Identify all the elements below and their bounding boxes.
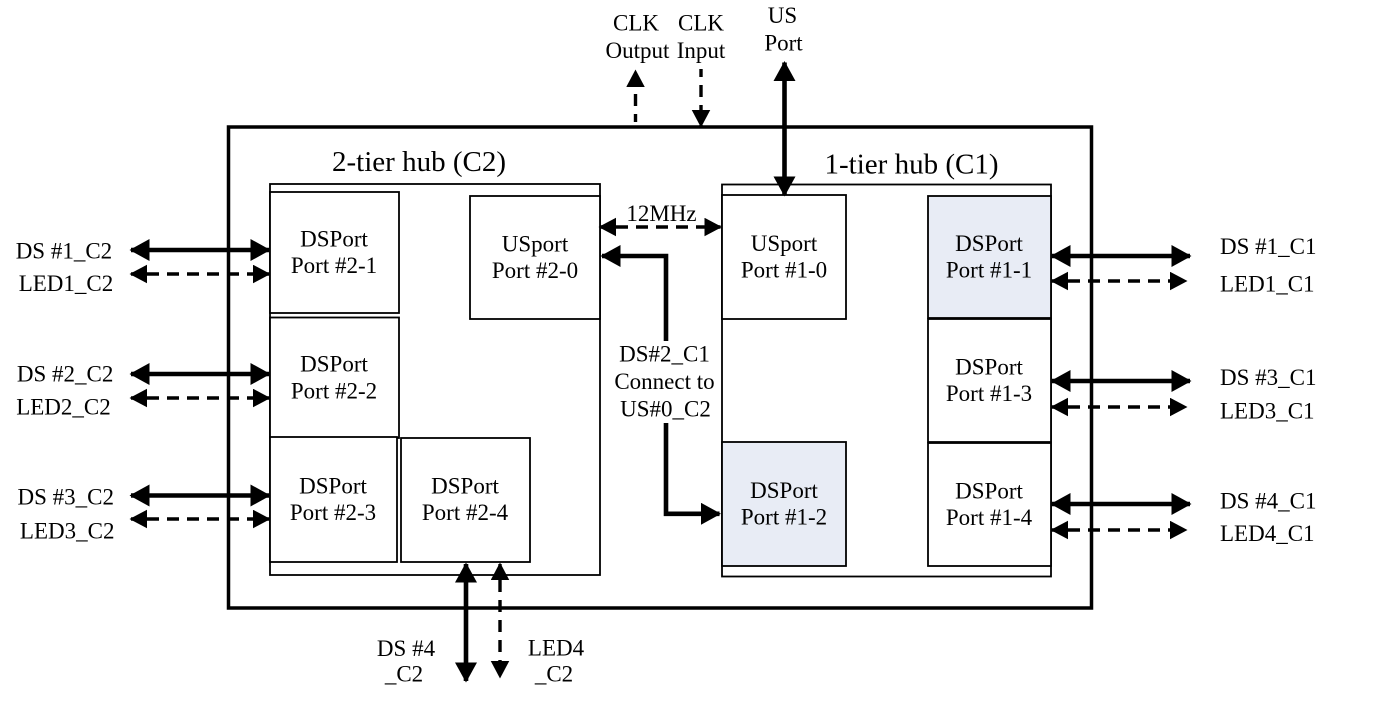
svg-text:USport: USport — [502, 231, 569, 256]
svg-text:CLK: CLK — [613, 10, 659, 35]
svg-text:Port #2-4: Port #2-4 — [422, 500, 509, 525]
svg-text:DSPort: DSPort — [431, 474, 499, 499]
svg-text:LED4_C1: LED4_C1 — [1220, 521, 1315, 546]
svg-text:Port #1-1: Port #1-1 — [946, 258, 1032, 283]
svg-text:12MHz: 12MHz — [626, 201, 696, 226]
svg-text:Connect to: Connect to — [614, 369, 714, 394]
svg-text:DSPort: DSPort — [955, 355, 1023, 380]
svg-text:Port #2-0: Port #2-0 — [492, 258, 578, 283]
svg-text:DSPort: DSPort — [300, 227, 368, 252]
svg-text:DSPort: DSPort — [955, 479, 1023, 504]
svg-text:Input: Input — [677, 38, 726, 63]
svg-text:DS#2_C1: DS#2_C1 — [619, 342, 710, 367]
svg-text:LED2_C2: LED2_C2 — [16, 395, 111, 420]
svg-text:Port #2-2: Port #2-2 — [291, 378, 377, 403]
svg-text:Port #1-0: Port #1-0 — [741, 258, 827, 283]
svg-text:LED3_C1: LED3_C1 — [1220, 399, 1315, 424]
svg-text:DS #1_C1: DS #1_C1 — [1220, 234, 1317, 259]
svg-text:_C2: _C2 — [534, 662, 573, 687]
svg-text:LED1_C1: LED1_C1 — [1220, 272, 1315, 297]
svg-text:DS #1_C2: DS #1_C2 — [16, 238, 113, 263]
svg-text:Output: Output — [606, 38, 671, 63]
svg-text:DSPort: DSPort — [955, 231, 1023, 256]
svg-text:DSPort: DSPort — [750, 478, 818, 503]
svg-text:DSPort: DSPort — [299, 474, 367, 499]
svg-text:CLK: CLK — [678, 10, 724, 35]
svg-text:LED3_C2: LED3_C2 — [20, 518, 115, 543]
svg-text:LED4: LED4 — [528, 636, 585, 661]
svg-text:_C2: _C2 — [384, 662, 423, 687]
svg-text:DS #3_C1: DS #3_C1 — [1220, 365, 1317, 390]
svg-text:1-tier hub (C1): 1-tier hub (C1) — [825, 149, 999, 181]
svg-text:US#0_C2: US#0_C2 — [620, 397, 711, 422]
svg-text:USport: USport — [751, 231, 818, 256]
svg-text:DS #4: DS #4 — [377, 636, 436, 661]
svg-text:Port #2-1: Port #2-1 — [291, 253, 377, 278]
svg-text:DS #3_C2: DS #3_C2 — [18, 484, 115, 509]
svg-text:2-tier hub (C2): 2-tier hub (C2) — [332, 146, 506, 178]
svg-text:Port #1-3: Port #1-3 — [946, 381, 1032, 406]
svg-text:US: US — [768, 3, 797, 28]
svg-text:Port #1-4: Port #1-4 — [946, 505, 1033, 530]
svg-text:LED1_C2: LED1_C2 — [19, 271, 114, 296]
svg-text:Port #1-2: Port #1-2 — [741, 505, 827, 530]
svg-text:Port #2-3: Port #2-3 — [290, 500, 376, 525]
svg-text:DS #2_C2: DS #2_C2 — [17, 362, 114, 387]
svg-text:Port: Port — [764, 30, 803, 55]
svg-text:DS #4_C1: DS #4_C1 — [1220, 489, 1317, 514]
svg-text:DSPort: DSPort — [300, 352, 368, 377]
